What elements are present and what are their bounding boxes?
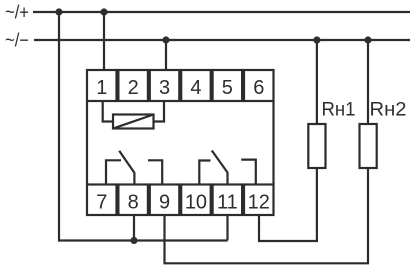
terminal 10 box: [181, 185, 211, 216]
svg-text:7: 7: [96, 191, 107, 213]
terminal 3 box: [150, 70, 180, 101]
svg-text:11: 11: [217, 191, 238, 213]
wire terminal 11 to bottom rail: [226, 215, 228, 241]
contact K1.2 blade: [212, 151, 228, 173]
terminal 9 box: [150, 185, 180, 216]
terminal 1 box: [87, 70, 117, 101]
svg-text:2: 2: [128, 77, 139, 99]
relay coil body: [113, 115, 154, 129]
svg-text:3: 3: [159, 77, 170, 99]
terminal 2 box: [118, 70, 147, 101]
junction dot on ~/- above terminal 3: [162, 36, 169, 43]
svg-text:~/−: ~/−: [5, 30, 29, 51]
resistor Rн2 body: [360, 124, 377, 168]
svg-text:10: 10: [185, 191, 207, 213]
junction dot on ~/- above Rн1: [313, 36, 320, 43]
contact K1.2 terminal-11 stub: [226, 172, 228, 184]
terminal 12 box: [244, 185, 274, 216]
junction dot bottom rail terminal 8: [130, 237, 137, 244]
contact K1.2 terminal-10 stub and seat: [199, 161, 210, 185]
net ~/+ bus wire: [33, 11, 410, 13]
svg-text:6: 6: [253, 77, 264, 99]
svg-text:9: 9: [159, 191, 170, 213]
wire ~/- to Rн2 top: [367, 40, 369, 124]
svg-text:~/+: ~/+: [5, 3, 29, 24]
contact K1.1 terminal-8 stub: [133, 172, 135, 184]
net ~/- bus wire: [34, 39, 410, 41]
junction dot on ~/+ above terminal 1: [100, 8, 107, 15]
terminal 4 box: [181, 70, 211, 101]
svg-text:Rн2: Rн2: [370, 98, 407, 120]
wire terminal 12 down and right to Rн1: [259, 168, 317, 241]
svg-text:4: 4: [190, 77, 201, 99]
svg-text:1: 1: [96, 77, 107, 99]
svg-text:5: 5: [222, 77, 233, 99]
wire from ~/+ down left side to bottom rail: [59, 12, 228, 241]
wire coil to terminal 3: [154, 101, 165, 122]
wire ~/+ to terminal 1: [103, 12, 105, 70]
contact K1.1 terminal-9 seat and stub: [148, 160, 162, 184]
wire terminal 8 to bottom rail: [133, 215, 135, 241]
device body left wall: [86, 101, 88, 185]
junction dot on ~/- above Rн2: [364, 36, 371, 43]
junction dot on ~/+ at left drop: [55, 8, 62, 15]
svg-text:8: 8: [128, 191, 139, 213]
terminal 11 box: [213, 185, 243, 216]
terminal 8 box: [118, 185, 147, 216]
wire terminal 1 down to coil: [103, 101, 113, 122]
terminal 7 box: [87, 185, 117, 216]
device body right wall: [272, 101, 274, 185]
wire terminal 9 down and right to Rн2: [165, 168, 369, 263]
wire ~/- to Rн1 top: [316, 40, 318, 124]
contact K1.2 terminal-12 seat and stub: [241, 160, 256, 185]
wire ~/- to terminal 3: [165, 40, 167, 70]
contact K1.1 blade: [119, 151, 134, 173]
svg-text:Rн1: Rн1: [322, 98, 356, 120]
terminal 6 box: [244, 70, 274, 101]
relay coil diagonal stroke: [113, 115, 154, 129]
terminal 5 box: [213, 70, 243, 101]
contact K1.1 terminal-7 stub and seat: [106, 160, 121, 184]
resistor Rн1 body: [308, 124, 325, 168]
svg-text:12: 12: [248, 191, 270, 213]
